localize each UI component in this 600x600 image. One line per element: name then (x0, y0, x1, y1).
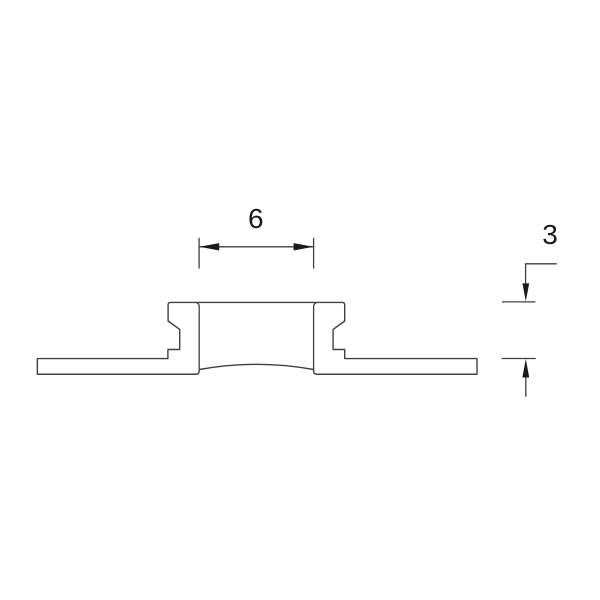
svg-text:6: 6 (248, 203, 264, 234)
svg-text:3: 3 (542, 219, 558, 250)
